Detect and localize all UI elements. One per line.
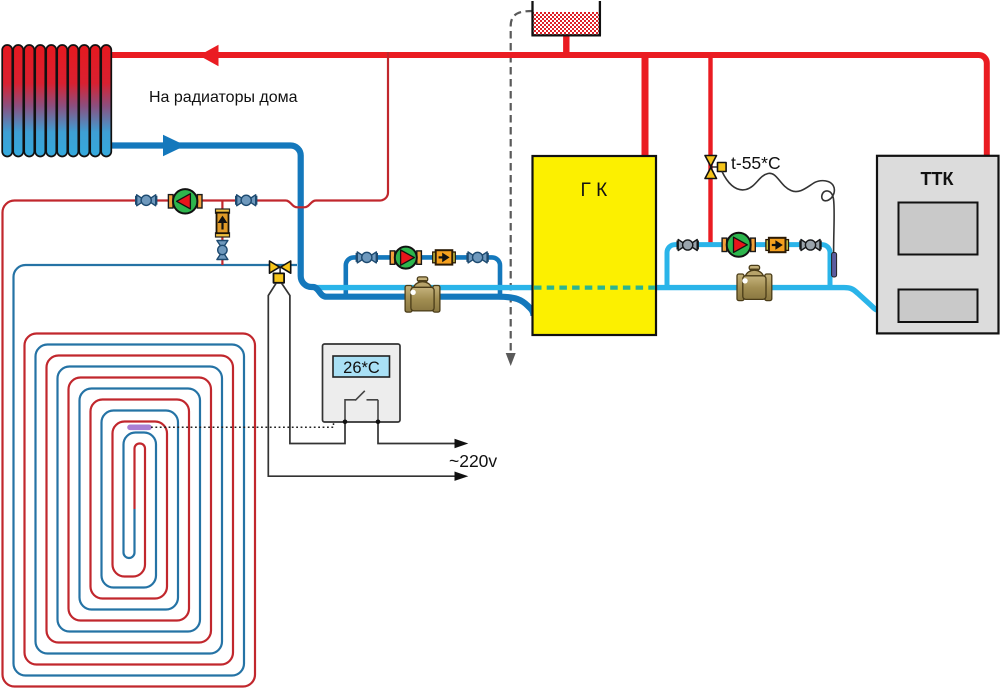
svg-text:Г К: Г К <box>581 180 608 201</box>
thermostatic valve t-55C <box>705 156 726 179</box>
pipe dashed through GK <box>534 286 655 290</box>
boiler GK (gas) <box>533 156 657 335</box>
check valve brass (GK return) <box>405 277 440 312</box>
valve V6 (TTK loop) <box>800 240 821 251</box>
wire dashed relief line from expansion tank <box>511 11 533 356</box>
check valve CV2 (GK loop) <box>433 250 456 264</box>
wire capillary tube <box>722 172 834 254</box>
pump P3 (TTK loop) <box>722 233 755 257</box>
pipe main hot supply <box>110 55 987 157</box>
wire dotted sensor to thermostat <box>151 422 334 428</box>
thermostat room 26C <box>323 344 401 424</box>
pump P1 (floor circuit) <box>168 189 202 213</box>
valve V2 (floor circuit) <box>236 195 257 206</box>
wire floor heating spiral red supply <box>3 201 256 687</box>
radiator <box>2 45 111 157</box>
three-way mixing valve <box>270 261 291 283</box>
arrow flow left on main supply <box>199 45 219 66</box>
valve V3 (GK loop) <box>357 252 378 263</box>
red pipe with thermostatic valve t-55 <box>708 55 712 246</box>
pipe TTK pump loop (cyan) <box>667 245 830 286</box>
pipe warm floor supply (cyan) left segment <box>314 285 533 290</box>
expansion tank <box>531 1 601 35</box>
sensor capillary bulb <box>832 253 837 278</box>
sensor floor temperature (purple) <box>130 424 149 430</box>
valve make-up <box>217 241 228 260</box>
svg-text:t-55*C: t-55*C <box>731 153 781 173</box>
pump P2 (GK loop) <box>390 247 421 269</box>
pipe cyan right segment to TTK <box>656 288 881 311</box>
arrow flow right on return <box>163 135 186 156</box>
wire thin red supply line to floor circuit <box>60 52 388 207</box>
check valve CV3 (TTK loop) <box>766 238 789 252</box>
check valve make-up (brass) <box>216 209 230 237</box>
svg-text:ТТК: ТТК <box>921 169 955 189</box>
boiler TTK (solid fuel) <box>877 156 999 334</box>
pipe expansion tank stub <box>563 33 569 55</box>
wire make-up water branch <box>221 201 223 266</box>
check valve brass (TTK) <box>737 265 772 300</box>
wire servo to thermostat and 220v <box>268 283 455 476</box>
pipe GK pump bypass loop <box>346 257 500 294</box>
wire floor heating spiral blue return <box>124 509 135 558</box>
red pipe to GK boiler <box>642 55 649 157</box>
pipe radiator return (blue) <box>110 146 534 317</box>
valve V5 (TTK loop) <box>677 240 698 251</box>
svg-text:~220v: ~220v <box>449 451 497 471</box>
svg-text:На радиаторы дома: На радиаторы дома <box>149 89 298 106</box>
svg-text:26*C: 26*C <box>343 359 380 377</box>
valve V1 (floor circuit) <box>136 195 157 206</box>
valve V4 (GK loop) <box>467 252 488 263</box>
